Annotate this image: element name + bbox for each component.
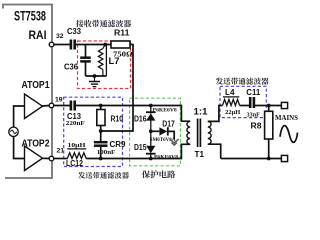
svg-text:D16: D16 bbox=[134, 115, 147, 124]
svg-text:D17: D17 bbox=[162, 120, 175, 129]
AC signal source bbox=[9, 127, 18, 136]
svg-text:19: 19 bbox=[55, 97, 63, 104]
wire C11 to mains bbox=[255, 105, 282, 107]
coupling filter dashed box (blue) bbox=[220, 86, 266, 117]
wire R8 bottom stub bbox=[268, 139, 270, 159]
inductor L4 bbox=[223, 96, 239, 98]
protection circuit dashed box (green) bbox=[130, 98, 181, 166]
svg-text:CR9: CR9 bbox=[110, 140, 127, 149]
wire R10 to CR9 bbox=[100, 126, 102, 142]
svg-text:C33: C33 bbox=[67, 27, 82, 36]
inductor LC12 bbox=[67, 148, 86, 150]
label: protection circuit (Chinese) bbox=[142, 170, 150, 178]
svg-text:C36: C36 bbox=[64, 63, 79, 72]
svg-text:R11: R11 bbox=[114, 29, 130, 38]
svg-text:R8: R8 bbox=[251, 121, 262, 131]
resistor R8 bbox=[265, 111, 273, 139]
IC ST7538 outline bbox=[3, 5, 52, 179]
svg-text:220nF: 220nF bbox=[66, 120, 85, 127]
wire source to ATOP2 in bbox=[14, 137, 25, 159]
capacitor C33 bbox=[70, 40, 73, 50]
wire C33 to R11 bbox=[75, 44, 111, 46]
pin 21 ATOP2 bbox=[49, 156, 54, 161]
node: D15 bottom bbox=[149, 157, 153, 161]
wire bottom rail to mains bbox=[221, 158, 282, 160]
node: D16 top bbox=[149, 104, 153, 108]
svg-text:MAINS: MAINS bbox=[275, 113, 298, 122]
svg-text:750Ω: 750Ω bbox=[113, 51, 133, 59]
earth ground (protection, chevron style) bbox=[170, 139, 179, 143]
transmit filter dashed box (blue) bbox=[64, 97, 123, 166]
svg-text:100nF: 100nF bbox=[97, 149, 116, 156]
svg-text:32: 32 bbox=[56, 33, 64, 40]
pin 32 RAI bbox=[49, 42, 54, 47]
wire L4 to C11 bbox=[240, 105, 250, 107]
op-amp ATOP1 bbox=[25, 94, 43, 119]
wire RAI to C33 bbox=[54, 44, 70, 46]
svg-text:L4: L4 bbox=[225, 88, 235, 97]
wire source to ATOP1 in bbox=[14, 106, 25, 127]
pin 19 ATOP1 bbox=[49, 103, 54, 108]
wire ATOP2 out bbox=[43, 157, 50, 159]
node: ground tap bbox=[93, 74, 97, 78]
svg-text:T1: T1 bbox=[195, 150, 205, 159]
wire R11 down to R10/CR9 node bbox=[101, 45, 133, 132]
capacitor C36 bbox=[85, 45, 87, 58]
node: C36/L7 tap bbox=[103, 43, 107, 47]
wire ATOP1 out bbox=[43, 105, 50, 108]
diode D17 (TVS) bbox=[159, 127, 167, 135]
svg-text:RAI: RAI bbox=[29, 28, 47, 42]
wire C36/L7 bottom bbox=[86, 75, 107, 77]
resistor R10 bbox=[97, 110, 105, 126]
svg-text:D15: D15 bbox=[134, 143, 147, 152]
AC mains sine symbol bbox=[280, 126, 298, 143]
wire CR9 to bottom rail bbox=[100, 146, 102, 158]
receive filter dashed box (red) bbox=[78, 41, 131, 89]
wire to D17 bbox=[151, 130, 160, 132]
node: R8 top bbox=[267, 104, 271, 108]
svg-text:22μH: 22μH bbox=[225, 109, 240, 116]
node: RX tap bbox=[99, 129, 103, 133]
node: R10 top bbox=[99, 104, 103, 108]
wire pin21 to LC12 bbox=[54, 158, 68, 160]
capacitor C13 bbox=[70, 101, 73, 111]
ground (earth) bbox=[94, 76, 96, 81]
wire R8 top stub bbox=[268, 106, 270, 112]
transformer T1 core bbox=[197, 119, 199, 148]
svg-text:R10: R10 bbox=[111, 114, 124, 123]
wire D17 to earth bbox=[168, 131, 174, 139]
label: transmit band-pass filter (Chinese, right) bbox=[216, 78, 223, 85]
node: R8 bottom bbox=[267, 157, 271, 161]
diode D15 (TVS) bbox=[146, 146, 155, 153]
svg-text:10μH: 10μH bbox=[68, 142, 86, 149]
inductor L7 bbox=[105, 45, 106, 77]
op-amp ATOP2 bbox=[25, 146, 43, 171]
node: TVS midpoint bbox=[149, 129, 153, 133]
terminal: mains neutral bbox=[281, 155, 287, 161]
wire secondary bottom bbox=[208, 144, 221, 158]
transformer T1 secondary winding bbox=[208, 121, 211, 144]
svg-text:P6KE6V8: P6KE6V8 bbox=[153, 108, 177, 114]
transformer T1 primary winding bbox=[187, 121, 190, 144]
svg-text:33nF: 33nF bbox=[247, 111, 261, 118]
diode D16 (TVS) bbox=[150, 106, 152, 114]
svg-text:C11: C11 bbox=[246, 88, 261, 97]
svg-text:P6KE6V8: P6KE6V8 bbox=[154, 155, 178, 161]
wire bottom rail to transformer bbox=[86, 144, 190, 158]
node: CR9 bottom bbox=[99, 157, 103, 161]
wire secondary top bbox=[208, 106, 223, 122]
svg-text:ST7538: ST7538 bbox=[14, 9, 46, 24]
label: transmit band-pass filter (Chinese, bottom) bbox=[78, 172, 85, 179]
resistor R11 bbox=[111, 41, 130, 48]
wire R10 top stub bbox=[100, 106, 102, 110]
wire top rail to transformer bbox=[75, 106, 190, 122]
capacitor C11 bbox=[249, 97, 252, 108]
svg-text:ATOP1: ATOP1 bbox=[22, 79, 50, 91]
terminal: mains line bbox=[281, 102, 287, 108]
label: receive band-pass filter (Chinese) bbox=[76, 20, 84, 27]
svg-text:1:1: 1:1 bbox=[194, 107, 208, 117]
capacitor CR9 bbox=[94, 141, 108, 144]
wire pin19 to C13 bbox=[54, 105, 70, 107]
svg-text:LC12: LC12 bbox=[66, 159, 83, 168]
